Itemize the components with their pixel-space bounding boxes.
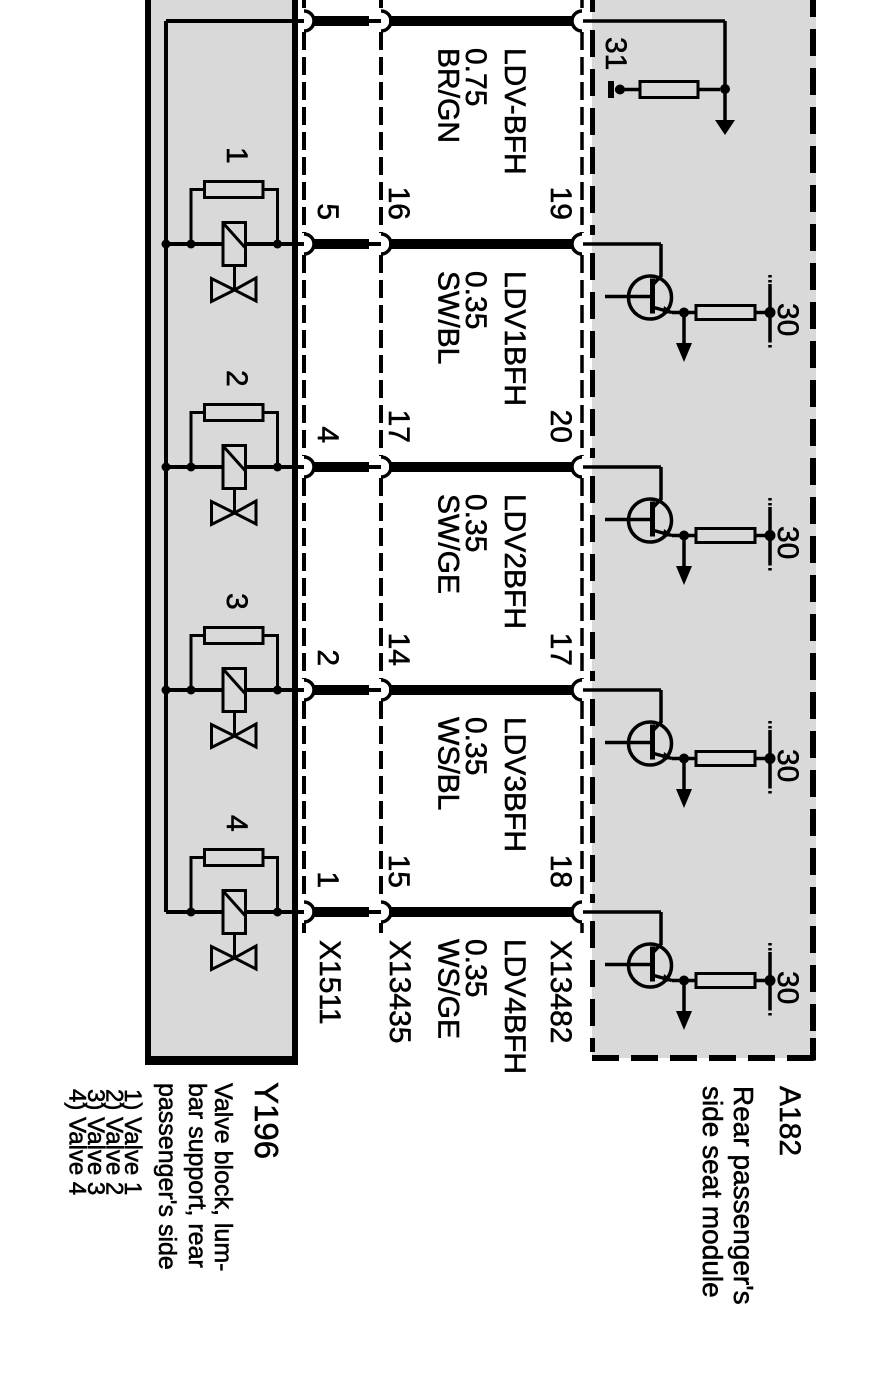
valve 1 valve symbol — [212, 279, 235, 302]
valve 1 resistor left lead — [191, 190, 205, 245]
wire row 2 inside module — [583, 242, 661, 246]
connector X13482 terminal row 2 — [572, 234, 582, 254]
wire row 4 X13435-X13482 — [389, 685, 573, 695]
svg-text:20: 20 — [544, 410, 577, 443]
svg-text:side seat module: side seat module — [697, 1086, 728, 1298]
ground branch row 4 — [682, 759, 686, 792]
terminal bar row 1 — [608, 81, 614, 98]
emitter wire row 2 — [672, 311, 696, 315]
module A182 left dashed border — [590, 0, 595, 12]
svg-text:LDV-BFH: LDV-BFH — [498, 48, 531, 175]
valve 4 bypass resistor — [205, 850, 264, 866]
svg-text:LDV3BFH: LDV3BFH — [498, 717, 531, 852]
svg-text:WS/BL: WS/BL — [432, 717, 465, 810]
junction left row 3 — [187, 463, 196, 472]
valve 2 resistor right lead — [263, 413, 278, 468]
valve 4 solenoid coil — [223, 891, 246, 934]
svg-text:LDV4BFH: LDV4BFH — [498, 939, 531, 1074]
svg-text:31: 31 — [599, 37, 632, 70]
svg-text:14: 14 — [382, 633, 415, 666]
svg-text:X1511: X1511 — [313, 940, 346, 1025]
connector X13482 dashed line — [580, 0, 584, 10]
transistor row 5 — [629, 944, 672, 987]
svg-text:Rear passenger's: Rear passenger's — [728, 1086, 759, 1305]
connector X13435 terminal row 4 — [381, 680, 391, 700]
wire row 5 inside module — [583, 910, 661, 914]
wire row 2 inside Y196 — [166, 242, 304, 246]
svg-text:LDV2BFH: LDV2BFH — [498, 494, 531, 629]
connector X1511 terminal row 5 — [304, 902, 314, 922]
junction right row 4 — [273, 686, 282, 695]
valve 2 stem wire — [233, 489, 236, 515]
transistor row 4 — [629, 722, 672, 765]
connector X13482 terminal row 5 — [572, 902, 582, 922]
Y196 internal bus wire — [164, 21, 168, 912]
connector X1511 dashed line — [302, 0, 306, 10]
ground branch row 2 — [682, 313, 686, 346]
module A182 border corner — [810, 1038, 816, 1061]
svg-text:SW/BL: SW/BL — [432, 271, 465, 364]
connector X13435 terminal row 5 — [381, 902, 391, 922]
wire row 4 X1511-X13435 — [313, 685, 369, 695]
svg-text:16: 16 — [382, 187, 415, 220]
junction left row 4 — [187, 686, 196, 695]
transistor row 3 — [629, 499, 672, 542]
valve 2 bypass resistor — [205, 405, 264, 421]
valve 2 solenoid coil — [223, 446, 246, 489]
ground branch row 3 — [682, 536, 686, 569]
valve block Y196 box — [148, 0, 295, 1062]
emitter wire row 3 — [672, 534, 696, 538]
valve 4 resistor left lead — [191, 858, 205, 913]
wire row 5 X13435-X13482 — [389, 907, 573, 917]
svg-text:X13482: X13482 — [544, 940, 577, 1043]
wire row 3 inside module — [583, 465, 661, 469]
valve 1 solenoid coil — [223, 223, 246, 266]
connector X13482 terminal row 1 — [572, 11, 582, 31]
svg-text:SW/GE: SW/GE — [432, 494, 465, 594]
svg-text:Valve block, lum-: Valve block, lum- — [209, 1083, 237, 1272]
connector X13482 terminal row 4 — [572, 680, 582, 700]
wire row 1 X1511-X13435 — [313, 16, 369, 26]
svg-text:WS/GE: WS/GE — [432, 939, 465, 1039]
junction right row 5 — [273, 908, 282, 917]
svg-text:LDV1BFH: LDV1BFH — [498, 271, 531, 406]
svg-text:bar support, rear: bar support, rear — [183, 1083, 211, 1268]
svg-text:1: 1 — [311, 871, 344, 888]
valve 3 bypass resistor — [205, 628, 264, 644]
svg-text:4: 4 — [311, 426, 344, 443]
module A182 box fill — [592, 0, 816, 1058]
wire row 1 inside Y196 — [166, 19, 304, 23]
valve 3 stem wire — [233, 712, 236, 738]
valve 3 resistor right lead — [263, 636, 278, 691]
resistor row 3 — [696, 529, 755, 543]
wire row 5 inside Y196 — [166, 910, 304, 914]
terminal 30 row 4 — [765, 753, 776, 764]
svg-text:5: 5 — [311, 203, 344, 220]
resistor row 2 — [696, 306, 755, 320]
valve 3 valve symbol — [212, 725, 235, 748]
wire row 2 X13435-X13482 — [389, 239, 573, 249]
connector X13482 terminal row 3 — [572, 457, 582, 477]
terminal 30 row 3 — [765, 530, 776, 541]
svg-text:X13435: X13435 — [383, 940, 416, 1043]
svg-text:Y196: Y196 — [248, 1082, 285, 1159]
svg-text:17: 17 — [382, 410, 415, 443]
transistor row 2 — [629, 276, 672, 319]
wire row 1 X13435-X13482 — [389, 16, 573, 26]
junction left row 2 — [187, 240, 196, 249]
svg-text:2: 2 — [311, 649, 344, 666]
valve 1 stem wire — [233, 266, 236, 292]
wire row 3 X1511-X13435 — [313, 462, 369, 472]
junction left row 5 — [187, 908, 196, 917]
junction right row 3 — [273, 463, 282, 472]
valve 2 valve symbol — [212, 502, 235, 525]
connector X1511 terminal row 1 — [304, 11, 314, 31]
svg-text:4: 4 — [220, 815, 253, 832]
valve 3 solenoid coil — [223, 669, 246, 712]
connector X13435 terminal row 3 — [381, 457, 391, 477]
connector X13435 terminal row 1 — [381, 11, 391, 31]
svg-text:3: 3 — [220, 593, 253, 610]
svg-text:2: 2 — [220, 370, 253, 387]
valve 1 bypass resistor — [205, 182, 264, 198]
resistor row 5 — [696, 974, 755, 988]
svg-text:30: 30 — [771, 303, 804, 336]
svg-text:30: 30 — [771, 971, 804, 1004]
terminal 30 row 5 — [765, 975, 776, 986]
svg-text:15: 15 — [382, 855, 415, 888]
valve 2 resistor left lead — [191, 413, 205, 468]
valve 4 stem wire — [233, 934, 236, 960]
resistor row 4 — [696, 752, 755, 766]
svg-text:17: 17 — [544, 633, 577, 666]
svg-text:30: 30 — [771, 526, 804, 559]
ground branch row 5 — [682, 981, 686, 1014]
valve 3 resistor left lead — [191, 636, 205, 691]
connector X13435 dashed line — [379, 0, 383, 10]
resistor row 1 — [640, 82, 698, 98]
wire row 4 inside module — [583, 688, 661, 692]
wire row 4 inside Y196 — [166, 688, 304, 692]
svg-text:1: 1 — [220, 147, 253, 164]
svg-text:4) Valve 4: 4) Valve 4 — [64, 1089, 91, 1195]
wire row 5 X1511-X13435 — [313, 907, 369, 917]
Y196 box bottom border — [145, 1056, 298, 1065]
valve 4 resistor right lead — [263, 858, 278, 913]
svg-text:18: 18 — [544, 855, 577, 888]
ground triangle row 1 — [715, 120, 735, 135]
connector X1511 terminal row 2 — [304, 234, 314, 254]
emitter wire row 5 — [672, 979, 696, 983]
module A182 bottom dashed border — [592, 1055, 816, 1061]
valve 1 resistor right lead — [263, 190, 278, 245]
svg-text:30: 30 — [771, 749, 804, 782]
connector X1511 terminal row 3 — [304, 457, 314, 477]
junction right row 2 — [273, 240, 282, 249]
connector X1511 terminal row 4 — [304, 680, 314, 700]
wire row 2 X1511-X13435 — [313, 239, 369, 249]
valve 4 valve symbol — [212, 947, 235, 970]
node 31 wire row 1 inside module — [583, 19, 725, 23]
connector X13435 terminal row 2 — [381, 234, 391, 254]
emitter wire row 4 — [672, 757, 696, 761]
junction bus row 2 — [162, 240, 171, 249]
junction row 1 — [720, 84, 730, 94]
terminal 30 row 2 — [765, 307, 776, 318]
junction bus row 3 — [162, 463, 171, 472]
svg-text:BR/GN: BR/GN — [432, 48, 465, 143]
module A182 right dashed border — [810, 0, 816, 1052]
svg-text:19: 19 — [544, 187, 577, 220]
wire row 3 inside Y196 — [166, 465, 304, 469]
junction bus row 4 — [162, 686, 171, 695]
svg-text:passenger's side: passenger's side — [153, 1083, 181, 1270]
svg-text:A182: A182 — [773, 1086, 806, 1156]
wire row 3 X13435-X13482 — [389, 462, 573, 472]
